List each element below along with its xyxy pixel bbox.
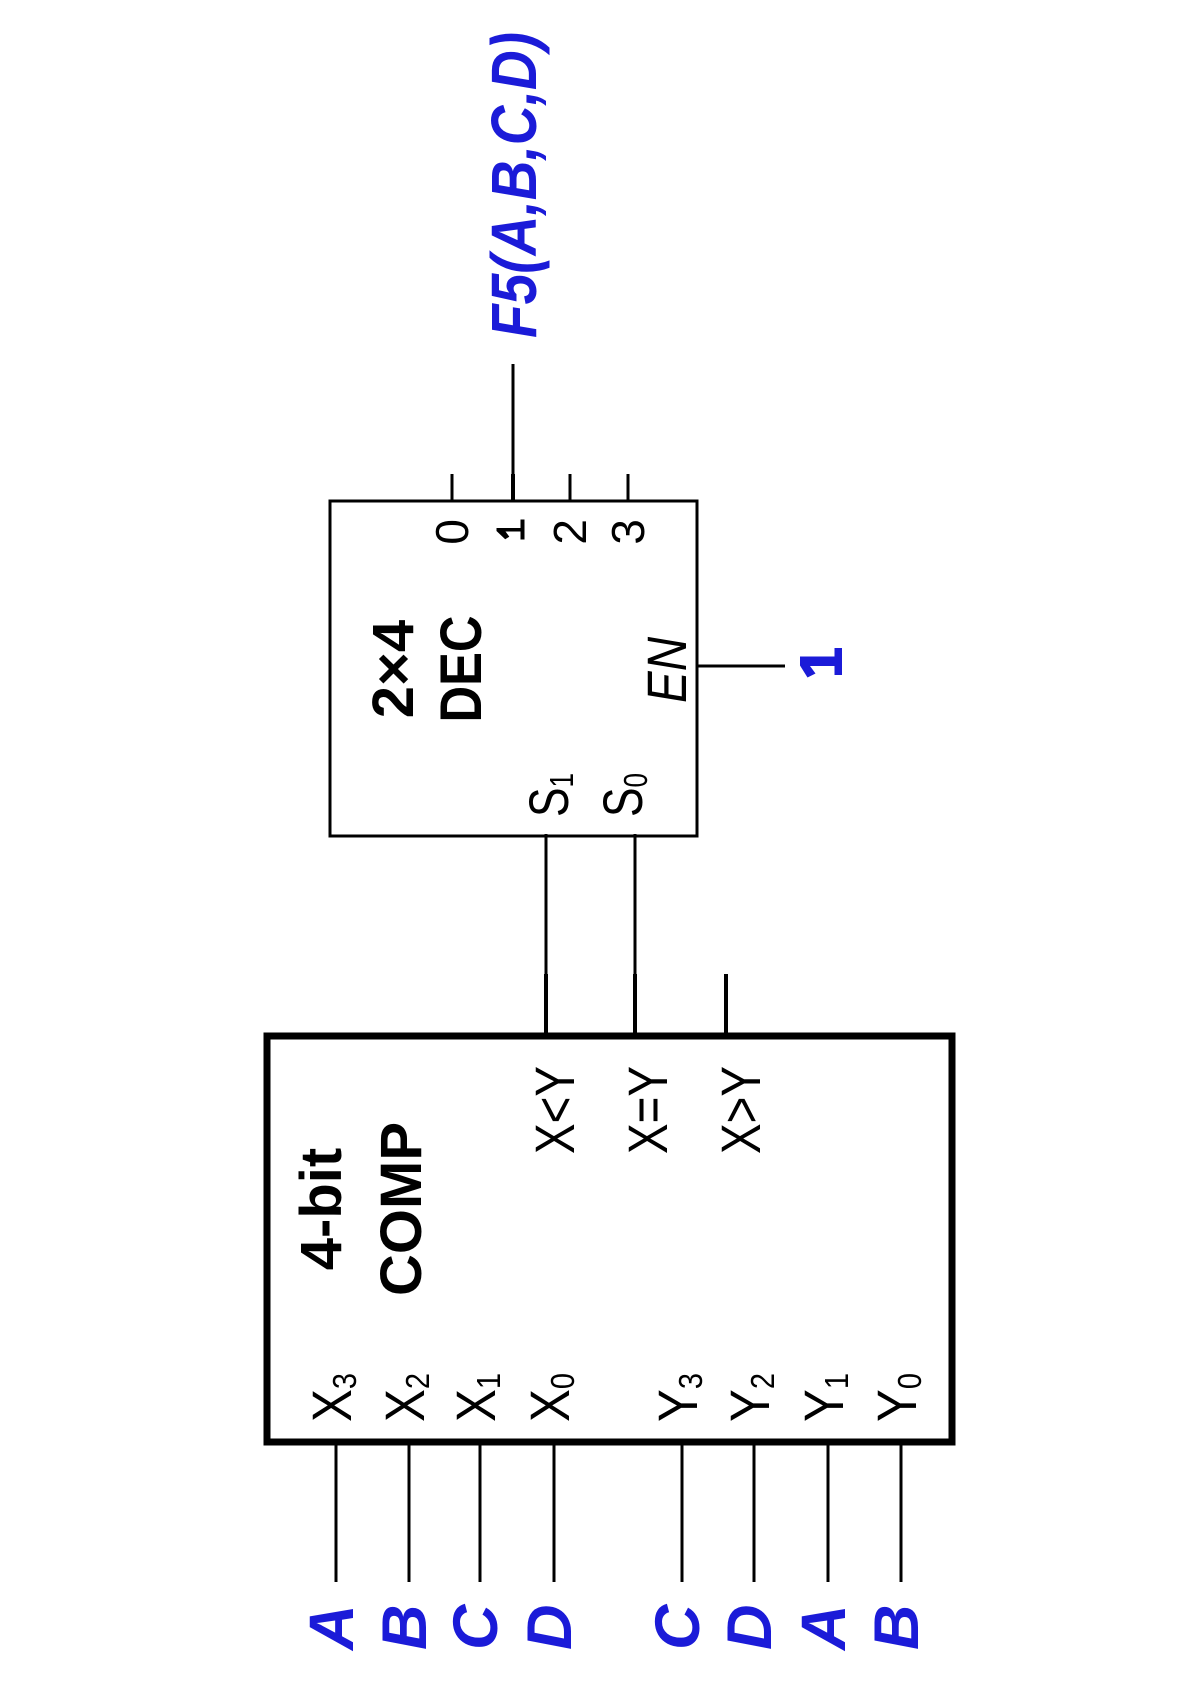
svg-text:X=Y: X=Y (616, 1066, 679, 1154)
constant 1 on EN (800, 648, 842, 678)
output stub 0 (451, 474, 454, 501)
wire EN enable (698, 665, 785, 668)
svg-text:DEC: DEC (429, 616, 494, 723)
svg-text:4-bit: 4-bit (289, 1148, 354, 1270)
wire output 1 to F5 (512, 364, 515, 501)
wire input C to Y3 (681, 1439, 684, 1582)
output stub X<Y (544, 974, 548, 1039)
output stub X=Y (633, 974, 637, 1039)
svg-text:F5(A,B,C,D): F5(A,B,C,D) (478, 32, 550, 338)
wire X<Y to S1 (545, 834, 548, 974)
wire input C to X1 (479, 1439, 482, 1582)
output stub 2 (569, 474, 572, 501)
output stub 1 (thick overlap) (511, 474, 515, 501)
svg-text:2: 2 (544, 519, 596, 545)
wire input B to Y0 (900, 1439, 903, 1582)
svg-text:D: D (715, 1605, 785, 1651)
output stub X>Y (724, 974, 728, 1039)
wire input A to Y1 (827, 1439, 830, 1582)
wire input B to X2 (408, 1439, 411, 1582)
svg-text:A: A (297, 1605, 367, 1653)
svg-text:EN: EN (635, 637, 698, 703)
svg-text:2×4: 2×4 (361, 620, 426, 718)
comparator U1 (4-bit COMP) box (267, 1036, 952, 1442)
svg-text:B: B (862, 1605, 932, 1651)
svg-text:B: B (370, 1605, 440, 1651)
wire input A to X3 (335, 1439, 338, 1582)
svg-text:3: 3 (602, 519, 654, 545)
svg-text:D: D (515, 1605, 585, 1651)
svg-text:A: A (789, 1605, 859, 1653)
svg-text:X<Y: X<Y (523, 1066, 586, 1154)
wire input D to X0 (553, 1439, 556, 1582)
pin label 1 (497, 520, 525, 540)
svg-text:C: C (643, 1603, 713, 1650)
svg-text:C: C (441, 1603, 511, 1650)
output stub 3 (627, 474, 630, 501)
svg-text:X>Y: X>Y (709, 1066, 772, 1154)
decoder U2 (2x4 DEC) box (330, 501, 697, 836)
svg-text:0: 0 (426, 519, 478, 545)
svg-text:COMP: COMP (369, 1122, 434, 1296)
wire input D to Y2 (753, 1439, 756, 1582)
wire X=Y to S0 (634, 834, 637, 974)
